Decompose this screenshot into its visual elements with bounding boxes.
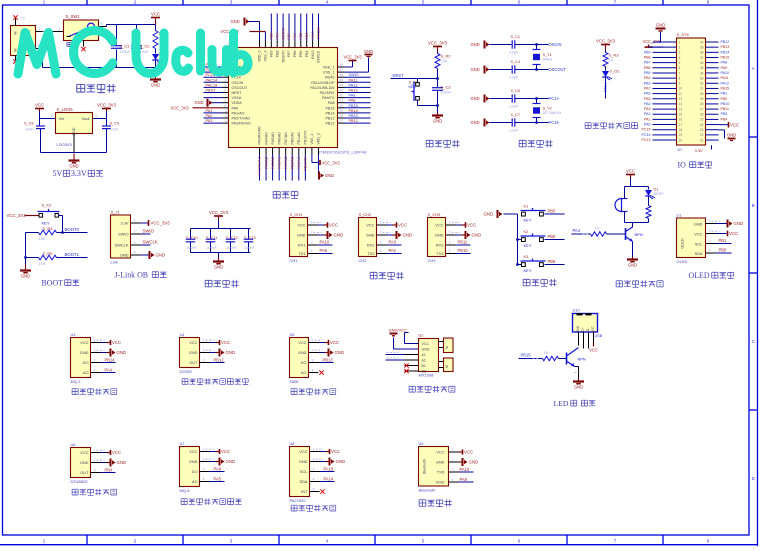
IO right pin 32 bbox=[706, 82, 719, 84]
IO left pin 13 bbox=[653, 103, 677, 105]
svg-text:100nF: 100nF bbox=[206, 246, 217, 250]
svg-text:1: 1 bbox=[94, 448, 96, 452]
svg-text:PB10: PB10 bbox=[458, 248, 469, 253]
svg-text:PA4: PA4 bbox=[644, 102, 651, 106]
svg-text:VCC_3V3: VCC_3V3 bbox=[7, 213, 27, 218]
svg-text:1K: 1K bbox=[609, 58, 614, 63]
svg-text:VCC: VCC bbox=[297, 223, 305, 228]
svg-text:OLED: OLED bbox=[689, 271, 710, 280]
svg-text:38: 38 bbox=[700, 51, 704, 55]
svg-text:GND: GND bbox=[694, 222, 703, 227]
svg-text:3: 3 bbox=[449, 241, 451, 245]
caption filter circuit bbox=[205, 280, 238, 287]
VCC right bbox=[719, 124, 729, 126]
wire A1 bbox=[405, 354, 419, 356]
svg-text:1K: 1K bbox=[595, 226, 600, 231]
svg-text:PA2: PA2 bbox=[644, 112, 651, 116]
svg-text:SWCLK: SWCLK bbox=[143, 240, 158, 245]
wire pin2 GND bbox=[308, 234, 318, 236]
svg-text:32: 32 bbox=[700, 82, 704, 86]
svg-text:45: 45 bbox=[340, 78, 344, 82]
svg-text:39: 39 bbox=[340, 109, 344, 113]
svg-text:PB4: PB4 bbox=[721, 117, 728, 121]
wire pin4 bbox=[446, 253, 456, 255]
ground bbox=[437, 106, 439, 113]
svg-text:PB9: PB9 bbox=[270, 33, 274, 40]
svg-text:4: 4 bbox=[225, 78, 227, 82]
IO left pin 7 bbox=[653, 72, 677, 74]
svg-text:2: 2 bbox=[709, 229, 711, 233]
svg-text:GND: GND bbox=[334, 233, 344, 238]
svg-text:VSS_1: VSS_1 bbox=[323, 71, 334, 75]
svg-text:PA3: PA3 bbox=[206, 119, 213, 123]
resistor R? bbox=[648, 197, 650, 206]
caption 5506 module bbox=[291, 388, 336, 394]
svg-text:U6: U6 bbox=[71, 442, 76, 447]
svg-text:PA2/TX/AO: PA2/TX/AO bbox=[232, 117, 251, 121]
IO left pin 11 bbox=[653, 93, 677, 95]
svg-text:3: 3 bbox=[380, 241, 382, 245]
svg-text:PB5: PB5 bbox=[644, 71, 651, 75]
wire bottom node bbox=[418, 105, 438, 107]
svg-text:1: 1 bbox=[679, 40, 681, 44]
svg-text:BOOT1: BOOT1 bbox=[65, 252, 80, 257]
push button K1 bbox=[516, 238, 519, 241]
svg-text:46: 46 bbox=[340, 73, 344, 77]
svg-text:PA15: PA15 bbox=[721, 86, 730, 90]
svg-text:GND: GND bbox=[117, 350, 127, 355]
wire pin2 SWIO bbox=[131, 233, 141, 235]
svg-text:PB0/AO: PB0/AO bbox=[290, 132, 294, 145]
IO left pin 1 bbox=[653, 41, 677, 43]
svg-text:5506: 5506 bbox=[290, 379, 300, 384]
svg-text:PA7/AO: PA7/AO bbox=[284, 132, 288, 145]
svg-text:VCC: VCC bbox=[589, 348, 598, 353]
capacitor S_C13 100nF bbox=[248, 229, 250, 239]
svg-text:3: 3 bbox=[134, 241, 136, 245]
svg-text:GND: GND bbox=[299, 459, 308, 464]
capacitor X_C6 12pF bbox=[484, 95, 486, 103]
IO right pin 34 bbox=[706, 72, 719, 74]
svg-text:PB10/TX: PB10/TX bbox=[304, 130, 308, 145]
IO left pin 15 bbox=[653, 113, 677, 115]
svg-text:PB8: PB8 bbox=[548, 234, 556, 239]
svg-text:GND/VCC: GND/VCC bbox=[389, 328, 408, 333]
svg-text:U8: U8 bbox=[290, 441, 295, 446]
svg-text:8: 8 bbox=[225, 99, 227, 103]
svg-text:22: 22 bbox=[700, 133, 704, 137]
wire button to BOOT0 node bbox=[59, 215, 63, 217]
resistor S_R2 10K bbox=[437, 52, 439, 54]
IO right pin 22 bbox=[706, 134, 719, 136]
svg-text:PA6/AO: PA6/AO bbox=[277, 132, 281, 145]
resistor S_R3 1K bbox=[605, 50, 607, 53]
svg-text:RX2: RX2 bbox=[367, 243, 375, 248]
svg-text:PB14: PB14 bbox=[349, 109, 358, 113]
svg-text:VCC_3V3: VCC_3V3 bbox=[209, 210, 229, 215]
svg-text:BOOT0: BOOT0 bbox=[281, 28, 285, 40]
caption key circuit bbox=[523, 279, 556, 286]
svg-text:KEY: KEY bbox=[524, 218, 532, 223]
svg-text:GND: GND bbox=[226, 350, 236, 355]
svg-text:41: 41 bbox=[340, 99, 344, 103]
svg-text:2: 2 bbox=[311, 231, 313, 235]
svg-text:PB12: PB12 bbox=[214, 357, 225, 362]
svg-text:VCC: VCC bbox=[729, 231, 738, 236]
svg-text:PB7: PB7 bbox=[287, 33, 291, 40]
IO right pin 24 bbox=[706, 124, 719, 126]
svg-text:STM32F103C8T6_LQFP48: STM32F103C8T6_LQFP48 bbox=[318, 149, 368, 154]
wire to net label bbox=[545, 264, 565, 266]
svg-text:4: 4 bbox=[380, 249, 382, 253]
svg-text:S_C12: S_C12 bbox=[226, 236, 238, 240]
svg-text:PB4: PB4 bbox=[305, 50, 309, 57]
svg-text:K3: K3 bbox=[524, 254, 530, 259]
svg-text:PB3: PB3 bbox=[721, 112, 728, 116]
wire connector pin1 to switch bbox=[36, 31, 64, 33]
IO right pin 37 bbox=[706, 56, 719, 58]
svg-text:PA11: PA11 bbox=[349, 78, 358, 82]
svg-text:VCC: VCC bbox=[591, 325, 595, 332]
svg-text:K1: K1 bbox=[524, 204, 530, 209]
NPN transistor Q2 bbox=[566, 353, 568, 365]
svg-text:SWIO: SWIO bbox=[143, 229, 155, 234]
wire pin1 VCC bbox=[446, 224, 456, 226]
svg-text:PB5: PB5 bbox=[299, 50, 303, 57]
svg-text:VCC_3V3: VCC_3V3 bbox=[428, 41, 448, 46]
svg-text:VCC_3V3: VCC_3V3 bbox=[344, 55, 363, 60]
motor connector M1 bbox=[444, 338, 454, 353]
svg-text:IO: IO bbox=[678, 147, 682, 152]
wire pin2 GND bbox=[446, 234, 456, 236]
svg-text:5: 5 bbox=[313, 487, 315, 491]
svg-text:AO: AO bbox=[192, 479, 198, 484]
svg-text:BOOT0: BOOT0 bbox=[281, 50, 285, 62]
pins B1 B2 no connect bbox=[405, 365, 419, 367]
svg-text:PB12: PB12 bbox=[721, 40, 730, 44]
svg-text:PA13: PA13 bbox=[349, 89, 358, 93]
GND right bbox=[719, 129, 725, 131]
svg-text:MQ-2: MQ-2 bbox=[71, 379, 82, 384]
svg-text:9: 9 bbox=[679, 82, 681, 86]
svg-text:5: 5 bbox=[679, 61, 681, 65]
IO left pin 4 bbox=[653, 56, 677, 58]
svg-text:KEY: KEY bbox=[42, 221, 50, 226]
svg-text:PB0/AO: PB0/AO bbox=[290, 156, 294, 169]
svg-text:40: 40 bbox=[340, 104, 344, 108]
wire key rail bbox=[504, 213, 518, 215]
IO left pin 6 bbox=[653, 67, 677, 69]
caption serial circuit bbox=[370, 272, 403, 279]
svg-text:TX3: TX3 bbox=[436, 251, 443, 256]
svg-text:PB15: PB15 bbox=[521, 353, 532, 358]
svg-text:VCC: VCC bbox=[331, 449, 340, 454]
svg-text:GND: GND bbox=[471, 67, 480, 72]
IO left pin 10 bbox=[653, 87, 677, 89]
svg-text:PA15: PA15 bbox=[311, 31, 315, 39]
svg-text:3: 3 bbox=[313, 467, 315, 471]
svg-text:VCC: VCC bbox=[80, 450, 88, 455]
svg-text:S_C10: S_C10 bbox=[186, 236, 198, 240]
svg-text:PB4: PB4 bbox=[305, 33, 309, 40]
svg-text:SDA: SDA bbox=[300, 479, 308, 484]
svg-text:1: 1 bbox=[313, 447, 315, 451]
svg-text:CH3: CH3 bbox=[428, 258, 437, 263]
IO right pin 27 bbox=[706, 108, 719, 110]
wire emitter to ground bbox=[575, 366, 579, 368]
push button K2 bbox=[518, 239, 522, 241]
svg-text:34: 34 bbox=[700, 71, 704, 75]
svg-text:40: 40 bbox=[700, 40, 704, 44]
svg-text:PB13: PB13 bbox=[325, 117, 334, 121]
svg-text:KEY: KEY bbox=[524, 268, 532, 273]
LED S_D2 bbox=[605, 67, 607, 71]
svg-text:1: 1 bbox=[203, 447, 205, 451]
svg-text:GND: GND bbox=[484, 212, 494, 217]
svg-text:PB9: PB9 bbox=[548, 259, 556, 264]
svg-text:GND: GND bbox=[226, 459, 236, 464]
svg-text:39: 39 bbox=[700, 45, 704, 49]
capacitor S_C10 100nF bbox=[190, 229, 192, 239]
svg-text:OLED: OLED bbox=[677, 259, 688, 264]
svg-text:S_K2: S_K2 bbox=[42, 203, 53, 208]
svg-text:SCL: SCL bbox=[695, 242, 703, 247]
caption DS18B20 module bbox=[72, 489, 117, 495]
svg-text:GND: GND bbox=[195, 100, 204, 105]
svg-text:1K: 1K bbox=[544, 350, 549, 355]
svg-text:PB3: PB3 bbox=[644, 81, 651, 85]
wire to net bbox=[605, 78, 607, 99]
wire USB pins down bbox=[578, 332, 580, 346]
svg-text:PB8: PB8 bbox=[644, 55, 651, 59]
no-connect X above connector bbox=[15, 19, 17, 26]
svg-text:GND: GND bbox=[469, 460, 479, 465]
svg-text:PA9: PA9 bbox=[721, 66, 728, 70]
svg-text:GND: GND bbox=[422, 348, 430, 352]
wire GND pin2 bbox=[393, 338, 395, 350]
svg-text:LED: LED bbox=[554, 399, 569, 408]
svg-text:PA9: PA9 bbox=[460, 477, 468, 482]
svg-text:PA4/AO: PA4/AO bbox=[264, 132, 268, 145]
svg-text:OSCIN: OSCIN bbox=[549, 42, 562, 47]
svg-text:GND: GND bbox=[576, 325, 580, 333]
wire BOOT0 bbox=[63, 232, 88, 234]
svg-text:PB6: PB6 bbox=[293, 50, 297, 57]
wire split bbox=[625, 186, 649, 188]
svg-text:PA3/RX/AO: PA3/RX/AO bbox=[258, 126, 262, 144]
ground bbox=[218, 253, 220, 259]
svg-text:PA10: PA10 bbox=[320, 240, 330, 245]
svg-text:MX1508: MX1508 bbox=[419, 373, 435, 378]
svg-text:S_C13: S_C13 bbox=[244, 236, 256, 240]
IO right pin 35 bbox=[706, 67, 719, 69]
svg-text:GND: GND bbox=[471, 120, 480, 125]
svg-text:3.3V: 3.3V bbox=[695, 148, 704, 153]
svg-text:PB15: PB15 bbox=[349, 104, 358, 108]
svg-text:PB13: PB13 bbox=[349, 114, 358, 118]
svg-text:RXD: RXD bbox=[436, 480, 444, 485]
svg-text:PB7: PB7 bbox=[644, 61, 651, 65]
IO right pin 40 bbox=[706, 41, 719, 43]
wire pin3 SCL bbox=[706, 243, 716, 245]
svg-text:3: 3 bbox=[452, 468, 454, 472]
svg-text:SWIO: SWIO bbox=[325, 76, 335, 80]
svg-text:S_Y2: S_Y2 bbox=[543, 107, 552, 111]
svg-text:PAJ7620: PAJ7620 bbox=[290, 498, 307, 503]
wire bottom rail bbox=[43, 67, 156, 69]
svg-text:VCC: VCC bbox=[436, 450, 444, 455]
svg-text:CH2: CH2 bbox=[359, 258, 368, 263]
svg-text:PC15: PC15 bbox=[642, 128, 651, 132]
svg-text:LDO3V3: LDO3V3 bbox=[57, 142, 73, 147]
svg-text:B1: B1 bbox=[422, 364, 426, 368]
svg-text:PA8: PA8 bbox=[349, 99, 356, 103]
svg-text:PA15: PA15 bbox=[311, 50, 315, 58]
wire base with resistor 1K bbox=[572, 233, 591, 235]
svg-text:D-: D- bbox=[586, 328, 590, 331]
svg-text:S_ST6: S_ST6 bbox=[677, 32, 690, 37]
svg-text:2: 2 bbox=[313, 457, 315, 461]
svg-text:GND: GND bbox=[336, 459, 346, 464]
IO left pin 2 bbox=[653, 46, 677, 48]
svg-text:S_C2: S_C2 bbox=[140, 44, 151, 49]
svg-text:31: 31 bbox=[700, 87, 704, 91]
svg-text:VCC: VCC bbox=[329, 223, 338, 228]
capacitor S_C1 12pF bbox=[484, 41, 486, 49]
svg-text:2: 2 bbox=[94, 348, 96, 352]
svg-text:SWCLK: SWCLK bbox=[317, 50, 321, 63]
svg-text:GND: GND bbox=[472, 233, 482, 238]
svg-text:GND: GND bbox=[298, 350, 307, 355]
svg-text:BOOT: BOOT bbox=[42, 279, 64, 288]
svg-text:PA8: PA8 bbox=[214, 466, 222, 471]
wire pin1 VCC bbox=[308, 224, 318, 226]
svg-text:PA15: PA15 bbox=[324, 466, 334, 471]
wire switch to VCC rail bbox=[99, 26, 107, 28]
svg-text:U2: U2 bbox=[419, 333, 424, 338]
svg-text:PA1: PA1 bbox=[644, 117, 651, 121]
wire LDO Vout to VCC_3V3 bbox=[93, 118, 107, 120]
svg-text:11: 11 bbox=[225, 114, 229, 118]
svg-text:INT: INT bbox=[301, 489, 308, 494]
svg-text:NRST: NRST bbox=[393, 73, 405, 78]
caption PAJ7620 module bbox=[291, 505, 336, 511]
svg-text:3: 3 bbox=[312, 358, 314, 362]
svg-text:Vout: Vout bbox=[82, 116, 91, 121]
svg-text:S_C11: S_C11 bbox=[206, 236, 217, 240]
IO right pin 38 bbox=[706, 51, 719, 53]
wire pin3 bbox=[446, 244, 456, 246]
svg-text:13: 13 bbox=[679, 102, 683, 106]
svg-text:100nF: 100nF bbox=[226, 246, 237, 250]
IO left pin 18 bbox=[653, 129, 677, 131]
svg-text:PA4: PA4 bbox=[105, 367, 113, 372]
IO left pin 3 bbox=[653, 51, 677, 53]
svg-text:PB15: PB15 bbox=[721, 55, 730, 59]
svg-text:4: 4 bbox=[449, 249, 451, 253]
svg-text:PA5/AO: PA5/AO bbox=[271, 156, 275, 169]
svg-text:PB14: PB14 bbox=[721, 50, 730, 54]
svg-text:PB1: PB1 bbox=[719, 238, 727, 243]
wire pin1 VCC bbox=[377, 224, 387, 226]
svg-text:PA9/TX: PA9/TX bbox=[322, 96, 335, 100]
wire pin4 GND bbox=[131, 254, 141, 256]
caption reset circuit bbox=[426, 140, 459, 147]
svg-text:S_CH3: S_CH3 bbox=[428, 212, 442, 217]
svg-text:S_C4: S_C4 bbox=[511, 60, 521, 64]
wire NRST bbox=[436, 77, 439, 80]
crystal S_Y1 bbox=[536, 45, 538, 50]
svg-text:10uF: 10uF bbox=[110, 128, 119, 132]
svg-text:15: 15 bbox=[679, 113, 683, 117]
caption bluetooth module bbox=[419, 499, 452, 506]
svg-text:VDD_2: VDD_2 bbox=[317, 133, 321, 144]
svg-text:17: 17 bbox=[679, 123, 683, 127]
svg-text:OSCOUT: OSCOUT bbox=[549, 67, 567, 72]
svg-text:4: 4 bbox=[311, 249, 313, 253]
svg-text:GND: GND bbox=[471, 96, 480, 101]
svg-text:35: 35 bbox=[700, 66, 704, 70]
wire pin3 SWCLK bbox=[131, 244, 141, 246]
svg-text:PB6: PB6 bbox=[644, 66, 651, 70]
svg-text:GND: GND bbox=[189, 459, 198, 464]
svg-text:U7: U7 bbox=[180, 441, 185, 446]
svg-text:GND: GND bbox=[80, 460, 89, 465]
svg-text:Bluetooth: Bluetooth bbox=[419, 488, 436, 493]
svg-text:VCC_3V3: VCC_3V3 bbox=[322, 161, 341, 166]
svg-text:12: 12 bbox=[679, 97, 683, 101]
IO right pin 28 bbox=[706, 103, 719, 105]
svg-text:NRST: NRST bbox=[232, 91, 243, 95]
svg-text:10: 10 bbox=[679, 87, 683, 91]
wire ground rail bbox=[41, 152, 107, 154]
svg-text:DO: DO bbox=[301, 360, 307, 365]
svg-text:PB6: PB6 bbox=[293, 33, 297, 40]
svg-text:PB8: PB8 bbox=[275, 33, 279, 40]
svg-text:VCC: VCC bbox=[464, 450, 473, 455]
svg-text:RX1: RX1 bbox=[298, 243, 306, 248]
svg-text:PA2: PA2 bbox=[389, 248, 397, 253]
svg-text:PAC15: PAC15 bbox=[206, 83, 218, 87]
svg-text:7: 7 bbox=[225, 94, 227, 98]
svg-text:PB14: PB14 bbox=[325, 111, 334, 115]
svg-text:GND: GND bbox=[433, 119, 442, 124]
svg-text:M: M bbox=[445, 365, 449, 368]
svg-text:S_C9: S_C9 bbox=[110, 122, 120, 126]
ground bbox=[73, 154, 75, 161]
svg-text:VCC: VCC bbox=[151, 12, 160, 17]
svg-text:27: 27 bbox=[700, 107, 704, 111]
svg-text:8: 8 bbox=[679, 76, 681, 80]
svg-text:SDA: SDA bbox=[695, 251, 703, 256]
svg-text:PB11: PB11 bbox=[721, 107, 730, 111]
svg-text:OLED: OLED bbox=[681, 238, 685, 249]
svg-text:8MHz: 8MHz bbox=[543, 58, 553, 62]
IO left pin 8 bbox=[653, 77, 677, 79]
svg-text:2: 2 bbox=[679, 45, 681, 49]
svg-text:1: 1 bbox=[312, 338, 314, 342]
svg-text:30: 30 bbox=[700, 92, 704, 96]
buzzer LS1 bbox=[624, 187, 626, 199]
IO right pin 31 bbox=[706, 87, 719, 89]
wire pin3 bbox=[377, 244, 387, 246]
svg-text:2: 2 bbox=[449, 231, 451, 235]
svg-text:VCC: VCC bbox=[330, 340, 339, 345]
svg-text:DO: DO bbox=[83, 360, 89, 365]
svg-text:GND: GND bbox=[214, 265, 223, 270]
svg-text:PA7/AO: PA7/AO bbox=[284, 156, 288, 169]
wire pin2 VCC bbox=[706, 233, 716, 235]
